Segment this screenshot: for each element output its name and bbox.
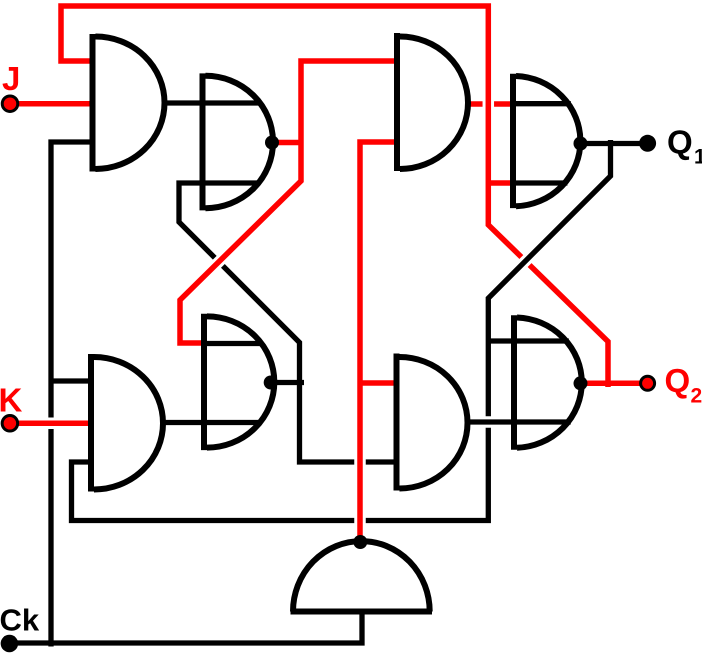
- svg-text:J: J: [2, 60, 20, 97]
- svg-text:1: 1: [694, 146, 702, 169]
- svg-text:Q: Q: [667, 124, 693, 161]
- svg-text:Ck: Ck: [0, 603, 40, 638]
- svg-text:K: K: [0, 382, 23, 419]
- svg-text:2: 2: [691, 385, 702, 408]
- svg-text:Q: Q: [665, 362, 691, 399]
